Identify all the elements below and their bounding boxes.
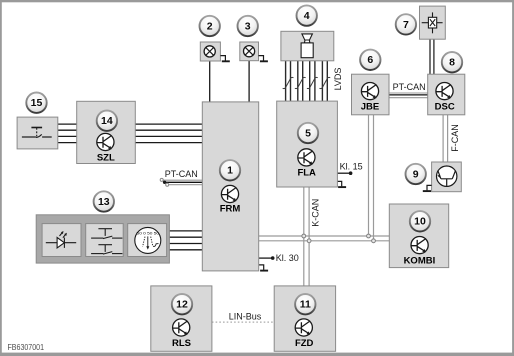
badge 3 <box>238 16 258 36</box>
svg-text:1: 1 <box>227 165 233 177</box>
svg-text:13: 13 <box>98 196 110 208</box>
svg-text:10: 10 <box>414 216 426 228</box>
svg-text:11: 11 <box>300 299 311 311</box>
ground at FLA <box>337 181 346 187</box>
svg-text:4: 4 <box>304 10 310 22</box>
svg-text:FZD: FZD <box>295 338 314 349</box>
svg-text:FLA: FLA <box>297 167 316 178</box>
badge 7 <box>396 14 416 34</box>
svg-text:K-CAN: K-CAN <box>311 199 321 227</box>
op symbol SZL <box>97 133 114 150</box>
badge 15 <box>26 93 46 113</box>
svg-text:PT-CAN: PT-CAN <box>393 82 426 92</box>
box: antenna unit 7 <box>420 6 446 39</box>
ground at lamp 3 <box>259 56 268 62</box>
wire: lamp 3 to FRM top <box>248 61 250 102</box>
svg-text:Kl. 15: Kl. 15 <box>340 161 363 171</box>
badge 2 <box>200 16 220 36</box>
box: control unit DSC <box>428 74 465 115</box>
svg-text:5: 5 <box>305 127 311 139</box>
box: switch block 13 <box>36 215 169 263</box>
box: control unit FZD <box>274 286 335 351</box>
badge 1 <box>220 160 240 180</box>
PT-CAN stub into FRM left <box>163 180 203 185</box>
op symbol FLA <box>298 149 315 166</box>
svg-text:JBE: JBE <box>361 101 379 112</box>
svg-text:FRM: FRM <box>220 204 241 215</box>
box: control unit FLA <box>277 101 338 187</box>
svg-text:FB6307001: FB6307001 <box>8 343 45 352</box>
svg-text:15: 15 <box>31 97 43 109</box>
F-CAN pair: DSC to sensor 9 <box>442 115 444 162</box>
badge 12 <box>172 294 192 314</box>
box: control unit RLS <box>151 286 212 351</box>
svg-text:14: 14 <box>101 115 113 127</box>
svg-text:2: 2 <box>207 20 213 32</box>
wire bundle: SZL to FRM (4 lines) <box>135 124 202 143</box>
svg-text:8: 8 <box>449 57 455 69</box>
K-CAN horizontal bus: FRM to KOMBI <box>259 235 390 237</box>
K-CAN pair: FLA down to FZD <box>303 187 305 286</box>
wire pair: JBE down to bus <box>368 115 370 236</box>
op symbol FRM <box>221 185 238 202</box>
op symbol DSC <box>436 83 453 100</box>
op symbol KOMBI <box>411 237 428 254</box>
svg-text:LIN-Bus: LIN-Bus <box>229 311 262 321</box>
svg-text:PT-CAN: PT-CAN <box>165 169 198 179</box>
box: control unit KOMBI <box>389 204 448 268</box>
svg-text:6: 6 <box>367 54 373 66</box>
wire pair: antenna unit 7 to DSC <box>429 39 431 74</box>
badge 9 <box>406 164 426 184</box>
wire: lamp 2 to FRM top <box>209 61 211 102</box>
svg-text:9: 9 <box>413 168 419 180</box>
wire bundle: switch unit 15 to SZL (4 lines) <box>58 124 77 143</box>
box: camera unit 4 <box>281 31 334 61</box>
Kl.30 terminal on FRM <box>259 257 273 259</box>
svg-text:12: 12 <box>176 299 188 311</box>
ground at lamp 2 <box>220 56 229 62</box>
ground at FRM <box>259 265 268 271</box>
LIN-Bus dotted link RLS to FZD <box>212 321 274 323</box>
box: lamp unit 3 <box>240 42 259 61</box>
svg-text:Kl. 30: Kl. 30 <box>276 253 299 263</box>
svg-text:SZL: SZL <box>97 153 115 164</box>
svg-text:7: 7 <box>403 19 409 31</box>
svg-text:50 0 50 50: 50 0 50 50 <box>137 232 160 236</box>
sub-box: light sensor <box>42 224 81 257</box>
junction nodes on bus <box>302 234 306 238</box>
badge 8 <box>442 52 462 72</box>
op symbol JBE <box>361 83 378 100</box>
badge 5 <box>298 123 318 143</box>
badge 14 <box>97 111 117 131</box>
svg-text:LVDS: LVDS <box>333 68 343 91</box>
sub-box: switch pair <box>86 224 124 257</box>
op symbol RLS <box>173 319 190 336</box>
svg-text:RLS: RLS <box>172 338 191 349</box>
op symbol FZD <box>295 319 312 336</box>
box: control unit SZL <box>77 101 136 163</box>
badge 11 <box>295 294 315 314</box>
box: steering column switch 15 <box>17 117 58 149</box>
sub-box: instrument gauge <box>128 224 167 257</box>
box: lamp unit 2 <box>200 42 220 61</box>
badge 6 <box>360 50 380 70</box>
badge 13 <box>94 191 114 211</box>
LVDS lines: camera 4 to FLA (4 pairs) <box>286 61 328 101</box>
PT-CAN link JBE to DSC <box>389 93 428 98</box>
PT-CAN stub end nodes <box>160 178 163 181</box>
svg-text:F-CAN: F-CAN <box>450 124 460 152</box>
wire bundle: switch block 13 to FRM (4 lines) <box>169 231 202 250</box>
badge 4 <box>297 5 317 25</box>
connector symbols on LVDS pairs <box>283 77 294 88</box>
badge 10 <box>410 211 430 231</box>
box: sensor 9 <box>432 162 462 192</box>
Kl.15 terminal on FLA <box>337 172 351 174</box>
svg-text:DSC: DSC <box>435 101 455 112</box>
box: control unit JBE <box>352 74 390 115</box>
svg-text:3: 3 <box>245 20 251 32</box>
ground at sensor 9 <box>423 185 432 191</box>
svg-text:KOMBI: KOMBI <box>404 255 436 266</box>
box: control unit FRM <box>202 102 258 271</box>
